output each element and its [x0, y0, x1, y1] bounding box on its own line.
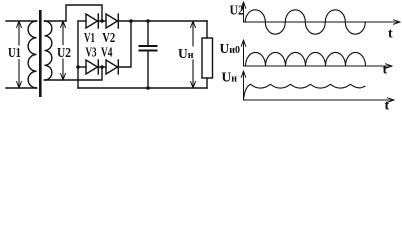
wire primary bottom: [6, 87, 37, 89]
diode V1: [86, 14, 98, 28]
wire bridge left vertical: [77, 21, 79, 88]
wire between V1 and V2: [98, 20, 106, 22]
capacitor C plates: [140, 45, 157, 47]
capacitor C top lead: [147, 21, 149, 46]
sine wave U2: [245, 10, 365, 34]
transformer T secondary winding: [45, 21, 52, 80]
svg-text:U2: U2: [57, 45, 71, 60]
node capacitor bottom: [146, 86, 150, 90]
wire bottom rail: [78, 87, 207, 89]
transformer core: [39, 10, 42, 97]
diode V3: [86, 60, 98, 74]
svg-text:Uн: Uн: [222, 70, 238, 85]
wire bottom row to riser: [118, 21, 131, 67]
svg-text:Uи0: Uи0: [220, 41, 241, 56]
U1 measurement arrow: [7, 21, 24, 88]
U2 measurement arrow: [56, 21, 73, 80]
wire primary top: [6, 20, 37, 22]
wire secondary top: [45, 20, 67, 22]
svg-text:U2: U2: [230, 4, 245, 19]
wire secondary top to bridge midpoint (up rail): [66, 5, 102, 21]
Un measurement arrow: [177, 21, 196, 88]
wire bottom diode row left: [78, 66, 86, 68]
wire secondary bottom to V3/V4 midpoint: [45, 67, 103, 80]
waveform 2 axes (Uи0): [241, 40, 392, 68]
node capacitor top: [146, 19, 150, 23]
svg-text:V1: V1: [84, 30, 95, 45]
svg-text:t: t: [385, 99, 390, 111]
wire top diode row left: [78, 20, 86, 22]
diode V2: [106, 14, 118, 28]
svg-text:t: t: [383, 63, 388, 78]
node junction V3-V4: [100, 65, 104, 69]
filtered ripple wave Uн: [244, 84, 366, 100]
rectified wave Uи0: [246, 52, 366, 66]
load resistor Rn bottom lead: [206, 78, 208, 88]
load resistor Rn: [202, 38, 213, 78]
wire output top: [118, 20, 207, 22]
node junction bottom row riser: [129, 19, 133, 23]
capacitor C bottom lead: [147, 51, 149, 89]
svg-text:V2: V2: [102, 30, 115, 45]
load resistor Rn top lead: [206, 21, 208, 38]
waveform 1 axes (U2): [241, 2, 400, 24]
node bottom row left: [76, 65, 80, 69]
transformer T primary winding: [28, 21, 36, 88]
svg-text:V3: V3: [86, 45, 97, 60]
svg-text:t: t: [388, 27, 393, 42]
waveform 3 axes (Uн): [241, 71, 394, 102]
diode V4: [106, 60, 118, 74]
node junction V1-V2: [100, 19, 104, 23]
svg-text:U1: U1: [8, 45, 21, 60]
svg-text:V4: V4: [101, 45, 113, 60]
wire between V3 and V4: [98, 66, 106, 68]
